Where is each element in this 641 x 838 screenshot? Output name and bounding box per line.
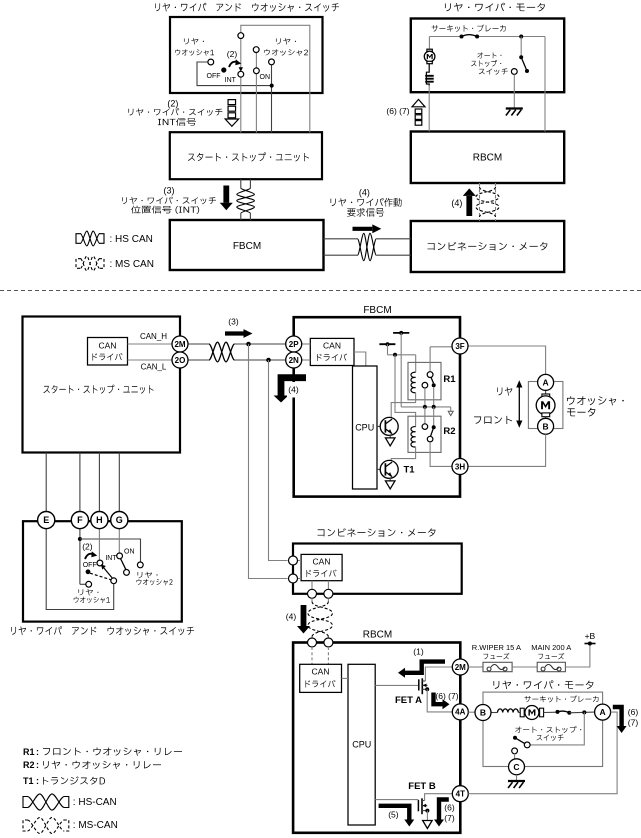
svg-text:R.WIPER 15 A: R.WIPER 15 A (472, 643, 521, 652)
svg-text:FBCM: FBCM (363, 305, 391, 316)
washer motor circuit right of FBCM (468, 346, 546, 374)
svg-text:(2): (2) (82, 542, 93, 552)
auto-stop switch (top) (520, 37, 522, 58)
R2 coil bottom to T1 (391, 447, 415, 460)
svg-text:: HS-CAN: : HS-CAN (73, 797, 117, 808)
INT signal symbol (2) (228, 100, 236, 105)
MS-CAN dashed braid combo to RBCM (311, 598, 313, 602)
svg-text:C: C (513, 762, 519, 772)
wires pins to driver (302, 343, 311, 345)
svg-text:MAIN 200 A: MAIN 200 A (531, 643, 571, 652)
R1 coil bottom to transistor (391, 393, 415, 417)
thermal element (426, 64, 429, 86)
CAN driver box (combo) (301, 554, 342, 580)
wire 4T to A (468, 712, 617, 794)
switch internals (lower box) (79, 529, 81, 585)
svg-text::: : (36, 760, 39, 770)
pin 2O (172, 352, 188, 368)
svg-text::: : (36, 747, 39, 757)
contact rail with dots (401, 406, 451, 408)
FET B source to ground (425, 809, 429, 813)
FBCM to combination meter wires + HS braid (324, 238, 358, 240)
combination meter label (top) (427, 242, 547, 251)
common contact and arm (111, 578, 117, 584)
pin 2P (286, 336, 302, 352)
svg-text:2O: 2O (175, 356, 186, 365)
svg-text:ON: ON (260, 74, 271, 81)
svg-text:2M: 2M (455, 663, 466, 672)
elbow arrow (4) down-left (281, 378, 306, 396)
svg-text:4A: 4A (455, 708, 465, 717)
svg-text:T1: T1 (23, 776, 34, 786)
washer2 upper circle (253, 47, 259, 53)
svg-text:CPU: CPU (355, 423, 374, 433)
transistor T1 (377, 468, 385, 470)
svg-text:(7): (7) (444, 813, 455, 823)
svg-text:3F: 3F (455, 342, 464, 351)
fuse circuit to +B (468, 666, 483, 668)
svg-text:2N: 2N (289, 356, 299, 365)
svg-text:(3): (3) (228, 317, 239, 327)
svg-text::: : (36, 776, 39, 786)
FET A drain from 2M (425, 667, 452, 681)
svg-text:B: B (480, 708, 486, 718)
svg-text:G: G (116, 515, 123, 525)
wire B to 3H (468, 434, 546, 466)
common contact circle (238, 33, 244, 39)
svg-text:4T: 4T (456, 790, 465, 799)
washer motor pins A/B and motor (545, 390, 547, 394)
rotation arrow (2) (229, 62, 237, 67)
combo left pins (298, 560, 302, 562)
combination meter box (top) (411, 221, 564, 272)
svg-text:CPU: CPU (352, 740, 371, 750)
transistor upper (for R1) (390, 416, 392, 419)
rear wiper and washer switch box (top) (170, 17, 323, 93)
pin 2N (286, 352, 302, 368)
wire motor bottom to RBCM (428, 85, 430, 132)
FET A source to 4A (425, 687, 429, 691)
svg-text:CAN: CAN (313, 557, 331, 567)
R2 contacts (424, 407, 426, 424)
gray drop wires to combination meter (lower) (249, 344, 288, 579)
auto-stop switch (lower) (530, 712, 584, 745)
arrow (6)(7) at A (613, 707, 622, 726)
combo bottom pins (311, 581, 313, 590)
(6)(7) signal symbol up (412, 99, 425, 106)
power tap 2 (379, 343, 395, 345)
rear wiper motor box (top) (411, 19, 564, 93)
R2 to 3H wire (430, 442, 452, 466)
previous position dot + dashed arm (86, 569, 91, 574)
RBCM box (top) (411, 132, 564, 184)
FBCM box (top) (170, 220, 324, 270)
MS-CAN between RBCM and combination meter (479, 183, 481, 221)
legend MS CAN (76, 259, 81, 269)
svg-text:CAN_H: CAN_H (140, 332, 167, 341)
svg-text:CAN_L: CAN_L (141, 362, 167, 371)
circuit breaker (lower) (556, 710, 560, 714)
HS-CAN twisted pair between unit and FBCM (240, 179, 242, 188)
inductor (498, 709, 519, 713)
svg-text:2P: 2P (289, 340, 299, 349)
svg-text:(4): (4) (359, 188, 370, 198)
pin 3F (430, 346, 452, 348)
svg-text:(6): (6) (628, 707, 639, 717)
svg-text:CAN: CAN (99, 341, 117, 351)
svg-text:A: A (543, 377, 549, 387)
fuse symbol 2 (541, 665, 561, 671)
CAN driver box (RBCM) (300, 664, 342, 692)
relay R1 box (408, 362, 441, 399)
svg-text:OFF: OFF (207, 73, 221, 80)
wire washer2 contact down (271, 62, 273, 133)
circuit breaker wire (429, 36, 461, 38)
legend HS CAN (76, 234, 81, 244)
svg-text:R1: R1 (443, 374, 456, 385)
arrow (4) right (353, 227, 373, 231)
svg-text:: MS CAN: : MS CAN (110, 259, 154, 270)
svg-text:(6) (7): (6) (7) (435, 691, 458, 701)
arrow (1) (405, 662, 445, 673)
title: rear wiper and washer switch (155, 3, 339, 12)
junction dot (270, 84, 274, 88)
svg-text:(7): (7) (628, 717, 639, 727)
wire 4A to B (468, 711, 475, 713)
washer motor box (528, 382, 563, 429)
start-stop unit label (188, 152, 309, 161)
arrow (6)(7) at FET B (439, 800, 449, 820)
svg-text:(6): (6) (444, 802, 455, 812)
FBCM box (lower) (294, 317, 460, 496)
svg-text:R2: R2 (443, 426, 455, 437)
svg-text:(1): (1) (413, 647, 424, 657)
washer2 contact circle (269, 59, 275, 65)
washer1 contact circle (208, 59, 214, 65)
wire right side down to RBCM (544, 37, 546, 132)
labels lower motor (524, 695, 598, 702)
CPU box (FBCM) (353, 366, 378, 489)
svg-text:(2): (2) (227, 49, 238, 59)
rear wiper motor box (lower) (493, 680, 593, 689)
pins A B (lower motor) (475, 705, 491, 721)
CAN driver box (unit) (88, 338, 128, 366)
svg-text:: HS CAN: : HS CAN (110, 234, 153, 245)
pins 2M 4A 4T (RBCM) (452, 659, 468, 675)
arrow (4) down (301, 605, 307, 626)
svg-text:R1: R1 (23, 747, 35, 757)
fuse symbol 1 (487, 665, 507, 671)
svg-text:FET A: FET A (395, 695, 422, 706)
separator dashed line (0, 290, 641, 292)
svg-text:R2: R2 (23, 760, 35, 770)
wire driver to CPU (354, 352, 366, 366)
svg-text:OFF: OFF (83, 562, 97, 569)
RBCM box (lower) (293, 643, 460, 833)
svg-text:2M: 2M (174, 340, 185, 349)
svg-text:FBCM: FBCM (233, 241, 261, 252)
wire common to E (46, 529, 114, 610)
breaker contacts (460, 35, 464, 39)
svg-text:RBCM: RBCM (363, 630, 392, 641)
arrow (3) down (223, 186, 229, 203)
arrow (3) right (225, 331, 244, 335)
switch arm common to INT (240, 36, 242, 69)
svg-text:A: A (600, 707, 606, 717)
CPU box (RBCM) (348, 664, 375, 825)
svg-text:(4): (4) (451, 198, 462, 208)
FET A (375, 684, 419, 686)
wire ON chain down (255, 50, 257, 133)
pins E F H G (38, 511, 55, 528)
junction to relay coils (388, 354, 416, 356)
CAN driver box (FBCM) (310, 338, 354, 365)
svg-text:: MS-CAN: : MS-CAN (73, 820, 118, 831)
R2 coil (411, 427, 416, 447)
start-stop unit box (lower) (23, 317, 181, 453)
junction dot to auto-stop (519, 35, 523, 39)
pin 2M (172, 336, 188, 352)
svg-text:F: F (77, 515, 83, 525)
wire INT contact down (240, 74, 242, 132)
combination meter box (lower) (293, 544, 462, 594)
R1 contacts (429, 347, 431, 372)
svg-text:FET B: FET B (408, 781, 436, 792)
arrow (5) (379, 806, 410, 820)
pin C and ground (509, 759, 525, 775)
rear wiper motor title (445, 3, 545, 12)
OFF position dot (221, 67, 226, 72)
motor circuit (lower) (491, 712, 498, 714)
motor M + brushes (428, 37, 430, 50)
svg-text:CAN: CAN (323, 341, 341, 351)
svg-text:3H: 3H (455, 462, 465, 471)
FET B (375, 799, 418, 801)
svg-text:ON: ON (124, 549, 135, 556)
RBCM top pins (308, 638, 317, 647)
svg-text:B: B (543, 421, 549, 431)
svg-text:+B: +B (585, 631, 596, 641)
ground (top motor) (506, 107, 523, 109)
svg-text:(5): (5) (388, 810, 399, 820)
svg-text:INT: INT (105, 555, 117, 562)
svg-text:(4): (4) (288, 385, 299, 395)
relay R2 box (408, 416, 441, 452)
arrow (6)(7) at FET A (434, 693, 443, 705)
svg-text:T1: T1 (403, 464, 415, 475)
svg-text:(4): (4) (286, 612, 297, 622)
rear/front double arrow (518, 386, 520, 422)
svg-text:H: H (96, 515, 103, 525)
wire washer1 contact to junction (197, 62, 272, 86)
wire common up-over-right (241, 25, 310, 132)
power tap 1 (393, 332, 409, 334)
junction dots CAN_H/CAN_L (246, 342, 251, 347)
wires unit to pins EFHG (45, 453, 47, 512)
svg-text:INT: INT (225, 77, 237, 84)
svg-text:(3): (3) (164, 186, 175, 196)
wires 2M/2O to braid to 2P/2N (188, 343, 209, 345)
svg-text:(6) (7): (6) (7) (386, 106, 409, 116)
FET B drain from 4T (425, 794, 453, 801)
svg-text:RBCM: RBCM (473, 153, 502, 164)
svg-text:E: E (43, 515, 49, 525)
wires driver to pins 2M 2O (128, 343, 173, 345)
arrow (4) up (466, 196, 472, 216)
svg-text:CAN: CAN (312, 667, 330, 677)
svg-text:(2): (2) (167, 99, 178, 109)
ON contact circle (254, 68, 260, 74)
R1 coil (411, 372, 416, 392)
start-stop unit box (top) (170, 132, 322, 179)
INT contact circle (238, 71, 244, 77)
